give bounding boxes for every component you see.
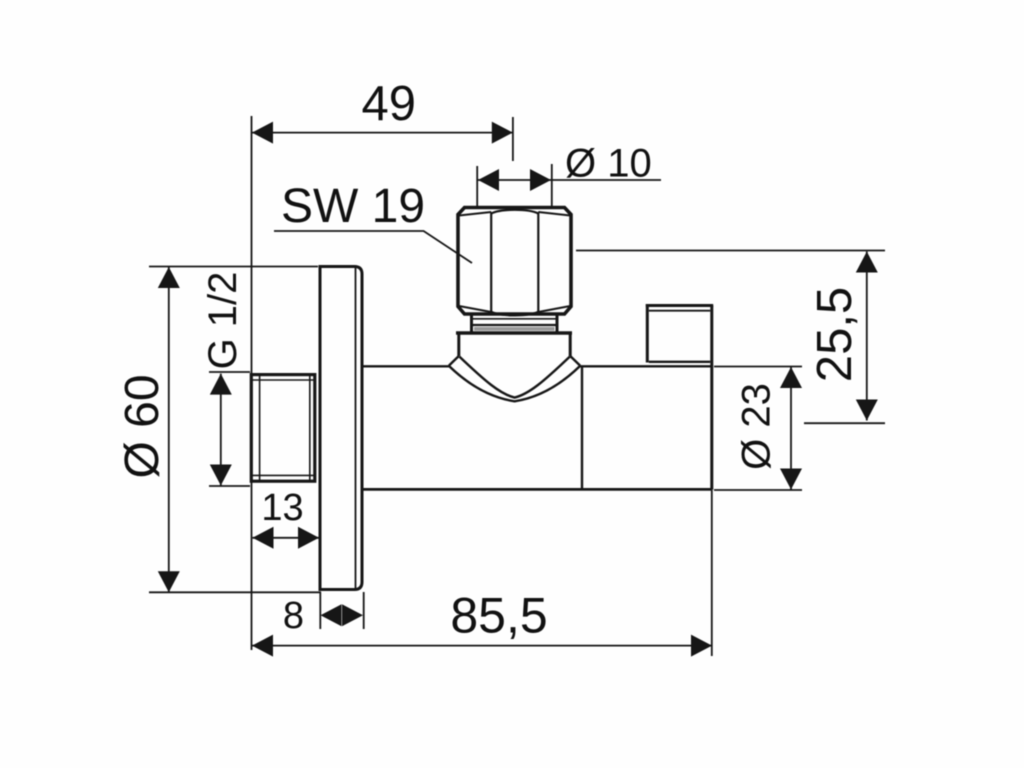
dimension D10 arrow right bbox=[530, 169, 551, 191]
svg-text:G 1/2: G 1/2 bbox=[201, 272, 245, 370]
dimension 49 extension line left (reference plane) bbox=[251, 116, 253, 650]
neck below hex left edge bbox=[470, 316, 473, 333]
dimension 85,5 arrow left bbox=[252, 635, 273, 657]
valve body top edge right segment bbox=[580, 365, 712, 367]
svg-text:49: 49 bbox=[361, 77, 416, 131]
dimension G1/2 arrow up bbox=[210, 374, 232, 395]
hex cap U-nut outline bbox=[458, 208, 571, 315]
hex cap top chamfer right bbox=[538, 212, 570, 216]
dimension 8 arrow right bbox=[342, 604, 363, 626]
dimension D10 line bbox=[477, 179, 661, 181]
dimension 8 extension line left bbox=[319, 592, 321, 629]
dimension D23 arrow up bbox=[780, 367, 802, 388]
dimension 13 arrow left bbox=[253, 527, 274, 549]
dimension G1/2 arrow down bbox=[210, 465, 232, 486]
svg-text:13: 13 bbox=[261, 487, 303, 529]
dimension D60 arrow down bbox=[158, 571, 180, 592]
G1/2 thread inner line bottom bbox=[252, 474, 315, 476]
dimension D23 top extension line bbox=[714, 366, 802, 368]
neck below hex right edge bbox=[556, 316, 559, 333]
dimension 8 arrow left bbox=[321, 604, 342, 626]
neck band line bbox=[472, 318, 558, 320]
bell housing outer V curve bbox=[449, 366, 580, 401]
outlet nub top edge bbox=[646, 304, 713, 307]
hex cap facet line left bbox=[490, 212, 492, 313]
dimension D23 arrow down bbox=[780, 469, 802, 490]
valve body top edge left segment bbox=[363, 365, 450, 367]
dimension G1/2 top extension line bbox=[209, 371, 250, 373]
dimension 25,5 line bbox=[866, 252, 868, 421]
bell housing top edge bbox=[456, 331, 572, 335]
dimension D60 line bbox=[168, 267, 170, 592]
dimension 49 arrow right bbox=[492, 122, 513, 144]
dimension D10 arrow left bbox=[478, 169, 499, 191]
G1/2 thread inner line left bbox=[259, 375, 261, 481]
dimension 85,5 right extension line bbox=[711, 490, 713, 656]
dimension D23 line bbox=[790, 367, 792, 490]
dimension D60 bottom extension line bbox=[149, 591, 321, 593]
dimension 49 line bbox=[252, 132, 513, 134]
dimension D60 arrow up bbox=[158, 267, 180, 288]
hex cap top chamfer left bbox=[459, 212, 491, 216]
dimension 85,5 line bbox=[252, 645, 712, 647]
dimension 8 extension line right bbox=[363, 592, 365, 629]
wall flange outline bbox=[320, 267, 362, 590]
dimension D23 bottom extension line bbox=[714, 489, 802, 491]
dimension 85,5 arrow right bbox=[691, 635, 712, 657]
G1/2 thread inner line right bbox=[309, 375, 311, 481]
svg-text:Ø 60: Ø 60 bbox=[116, 374, 169, 478]
dimension 25,5 bottom extension line bbox=[804, 422, 885, 424]
outlet nub left edge bbox=[646, 304, 649, 363]
G1/2 thread outline bbox=[251, 375, 314, 482]
bell housing inner V curve bbox=[459, 357, 570, 398]
valve body step line bbox=[581, 367, 583, 489]
dimension 49 extension line right (vertical axis) bbox=[512, 117, 514, 161]
hex cap bottom chamfer left bbox=[459, 306, 491, 312]
dimension D10 extension line left bbox=[476, 166, 478, 207]
svg-text:SW 19: SW 19 bbox=[281, 180, 425, 233]
outlet nub bottom line bbox=[649, 361, 711, 363]
hex cap facet line right bbox=[537, 212, 539, 313]
svg-text:8: 8 bbox=[283, 595, 304, 637]
svg-text:Ø 10: Ø 10 bbox=[565, 142, 652, 186]
G1/2 thread inner line top bbox=[252, 379, 315, 381]
svg-text:25,5: 25,5 bbox=[808, 287, 862, 382]
label SW 19 leader line bbox=[274, 231, 472, 263]
svg-text:85,5: 85,5 bbox=[450, 588, 547, 644]
dimension D60 top extension line bbox=[149, 266, 318, 268]
wall flange inner face line bbox=[355, 267, 357, 589]
valve body right edge bbox=[710, 306, 713, 490]
bell housing left flare chamfer bbox=[449, 356, 459, 366]
svg-text:Ø 23: Ø 23 bbox=[735, 383, 779, 470]
outlet nub inner top line bbox=[649, 310, 711, 312]
compression ring gray band bbox=[474, 327, 555, 331]
dimension 13 arrow right bbox=[298, 527, 319, 549]
dimension G1/2 bottom extension line bbox=[209, 485, 250, 487]
dimension 25,5 top extension line bbox=[576, 250, 885, 252]
hex cap bottom chamfer right bbox=[538, 306, 570, 312]
hex cap bottom chamfer arc middle bbox=[491, 312, 538, 316]
bell housing right flare chamfer bbox=[570, 356, 580, 366]
dimension 25,5 arrow down bbox=[856, 400, 878, 421]
hex cap top chamfer arc middle bbox=[491, 210, 538, 214]
dimension 13 line bbox=[253, 537, 320, 539]
dimension 25,5 arrow up bbox=[856, 252, 878, 273]
bell housing left edge bbox=[457, 334, 460, 356]
dimension G1/2 line bbox=[220, 374, 222, 486]
dimension 49 arrow left bbox=[252, 122, 273, 144]
bell housing right edge bbox=[569, 334, 572, 356]
valve body bottom edge bbox=[363, 488, 713, 491]
dimension D10 extension line right bbox=[551, 164, 553, 207]
